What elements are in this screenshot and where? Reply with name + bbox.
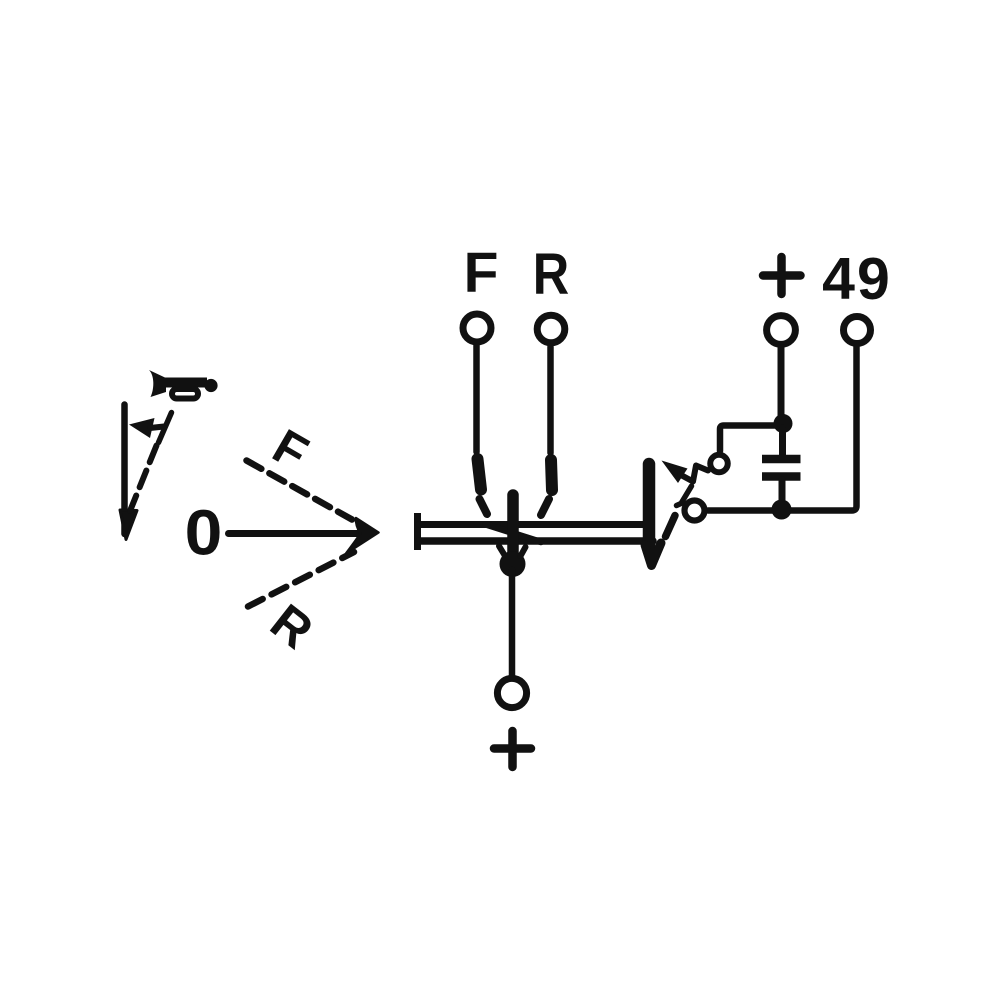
terminal R [537, 315, 565, 343]
horn icon loop [172, 389, 198, 399]
lever pivot blob [500, 551, 526, 577]
movable contact zigzag [680, 466, 708, 482]
horn lever arrow tip [120, 510, 137, 540]
pivot horn left [499, 546, 505, 555]
position arrowhead [346, 518, 379, 554]
horn icon tube [164, 378, 207, 388]
lever (center movable contact) [507, 495, 519, 553]
lower contact arm [677, 486, 692, 506]
terminal label + (battery plus) [763, 257, 801, 294]
contact tip dash R [541, 499, 549, 515]
pivot horn right [521, 547, 526, 556]
wire from upper contact to junction [720, 426, 778, 452]
svg-text:49: 49 [822, 246, 892, 312]
contact tip dash F [480, 499, 488, 514]
horn icon bell [149, 370, 166, 397]
contact point lower [685, 501, 705, 521]
terminal F [463, 314, 491, 342]
svg-text:R: R [533, 242, 569, 307]
capacitor C top plate [762, 455, 801, 464]
terminal + [767, 316, 796, 345]
switch bridge left end cap [414, 513, 421, 550]
contact point upper [710, 455, 728, 473]
switch bridge bottom rail [419, 537, 653, 545]
horn icon mouthpiece ball [204, 379, 217, 392]
wire R stem [547, 347, 554, 453]
right lever arrow tip [645, 543, 661, 566]
wire + stem [778, 348, 785, 424]
movable contact arrow (upper) [662, 461, 688, 484]
horn press arrow crossbar [159, 413, 172, 443]
position arrow shaft 0 [229, 530, 364, 537]
terminal bottom + [497, 678, 526, 707]
horn press arrow shaft [150, 427, 164, 429]
horn lever line [121, 405, 128, 535]
fixed contact R [551, 460, 552, 490]
svg-text:0: 0 [185, 496, 223, 568]
wire lever tail [509, 570, 516, 677]
right lever bar [643, 464, 656, 551]
capacitor C bottom stub [779, 480, 786, 502]
switch bridge top rail [419, 521, 649, 528]
capacitor C top stub [779, 428, 786, 456]
terminal label bottom + [494, 731, 531, 767]
position dashed line R [248, 552, 354, 607]
wire F stem [473, 346, 480, 453]
position dashed line F [247, 461, 353, 520]
wire 49 stem and bottom wire to lower contact [708, 347, 857, 511]
horn motion dashed line [130, 446, 157, 512]
svg-text:F: F [464, 241, 499, 305]
lever motion dash [666, 516, 676, 537]
junction node B [772, 500, 792, 520]
terminal 49 [844, 317, 871, 344]
fixed contact F [478, 459, 482, 490]
bridge diagonal link [486, 525, 541, 543]
junction node A [774, 414, 793, 433]
svg-text:R: R [260, 593, 323, 659]
horn press arrowhead [129, 418, 155, 438]
capacitor C bottom plate [762, 472, 801, 481]
